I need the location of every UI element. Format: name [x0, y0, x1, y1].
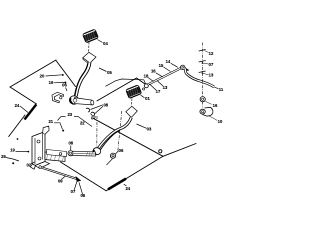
svg-text:04: 04 [103, 41, 108, 46]
svg-text:24: 24 [15, 103, 20, 108]
svg-text:05: 05 [107, 70, 112, 75]
svg-text:13: 13 [163, 85, 168, 90]
svg-text:22: 22 [80, 121, 85, 126]
svg-text:19: 19 [49, 80, 54, 85]
svg-text:25: 25 [1, 154, 6, 159]
svg-text:07: 07 [71, 189, 76, 194]
svg-text:20: 20 [40, 74, 45, 79]
svg-text:09: 09 [58, 178, 63, 183]
svg-text:24: 24 [125, 186, 130, 191]
svg-text:21: 21 [48, 119, 53, 124]
svg-text:08: 08 [103, 103, 108, 108]
svg-text:16: 16 [151, 69, 156, 74]
svg-text:23: 23 [67, 112, 72, 117]
svg-text:01: 01 [145, 96, 150, 101]
svg-text:10: 10 [218, 119, 223, 124]
svg-text:08: 08 [68, 141, 73, 146]
svg-text:03: 03 [147, 127, 152, 132]
svg-text:06: 06 [80, 193, 85, 198]
svg-text:13: 13 [209, 73, 214, 78]
svg-text:16: 16 [213, 103, 218, 108]
svg-text:14: 14 [166, 59, 171, 64]
svg-text:18: 18 [144, 74, 149, 79]
svg-text:17: 17 [156, 89, 161, 94]
svg-text:06: 06 [119, 148, 124, 153]
svg-text:02: 02 [26, 163, 31, 168]
svg-text:07: 07 [91, 116, 96, 121]
svg-text:19: 19 [10, 148, 15, 153]
svg-text:06: 06 [62, 83, 67, 88]
svg-text:07: 07 [209, 62, 214, 67]
svg-text:15: 15 [159, 63, 164, 68]
svg-text:12: 12 [209, 51, 214, 56]
svg-text:11: 11 [219, 87, 224, 92]
